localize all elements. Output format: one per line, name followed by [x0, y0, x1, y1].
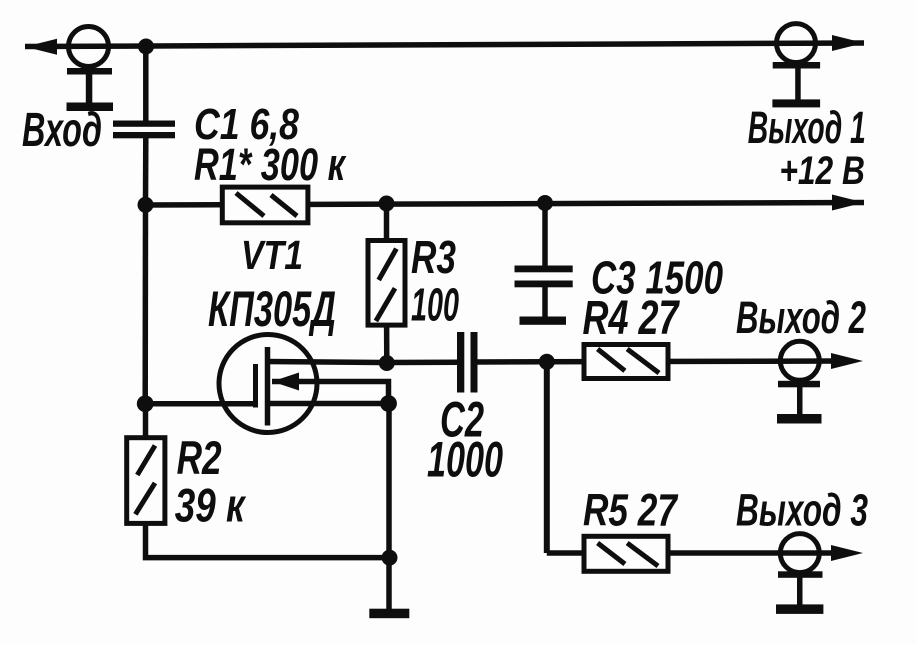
wire R3 top lead	[384, 204, 390, 242]
node drain	[379, 355, 395, 371]
svg-text:1000: 1000	[427, 432, 503, 488]
wire gate lead	[145, 401, 258, 407]
svg-text:VT1: VT1	[241, 232, 303, 278]
ground of output 3 connector	[776, 571, 823, 614]
resistor R5	[584, 536, 668, 571]
transistor VT1 substrate arrow	[272, 373, 299, 391]
ground of output 1 connector	[772, 62, 820, 107]
wire drain node to C2 left plate	[387, 359, 459, 365]
svg-text:Вход: Вход	[22, 104, 102, 157]
svg-text:КП305Д: КП305Д	[208, 281, 336, 337]
arrow right on bus 2	[832, 195, 864, 211]
connector input (socket)	[69, 27, 109, 67]
svg-text:100: 100	[411, 279, 459, 331]
svg-text:39 к: 39 к	[175, 479, 247, 532]
capacitor C3	[515, 266, 573, 288]
ground under transistor source	[369, 609, 409, 619]
ground of output 2 connector	[777, 381, 822, 424]
svg-text:R1* 300 к: R1* 300 к	[194, 139, 347, 190]
resistor R3	[368, 241, 405, 326]
wire substrate lead with bend	[272, 382, 389, 404]
node top bus / input branch	[138, 39, 154, 55]
wire source node to ground	[386, 404, 392, 611]
svg-text:R2: R2	[177, 431, 222, 484]
resistor R4	[584, 345, 668, 379]
svg-text:Выход 2: Выход 2	[736, 292, 866, 343]
wire vertical to R5	[544, 362, 550, 553]
capacitor C2	[457, 332, 478, 393]
arrow left on top bus	[25, 39, 57, 55]
svg-text:Выход 1: Выход 1	[748, 102, 866, 153]
wire C3 top lead	[542, 203, 548, 267]
node bus2 / C3	[537, 195, 553, 211]
wire R5 line	[547, 550, 840, 556]
node gate	[137, 395, 154, 412]
svg-text:R4 27: R4 27	[583, 292, 681, 345]
node bus2 / R3	[379, 196, 395, 212]
ground under C3	[520, 317, 567, 325]
wire left vertical upper (top bus to C1)	[143, 45, 149, 122]
wire C1 to bus2	[143, 137, 149, 205]
capacitor C1	[113, 121, 175, 139]
node bus2 left	[138, 197, 154, 213]
connector output 2	[780, 341, 819, 380]
wire C3 bottom lead	[542, 286, 548, 319]
resistor R2	[127, 438, 165, 524]
wire bus 2	[146, 203, 865, 206]
wire R2 top lead	[143, 404, 149, 438]
resistor R1	[222, 187, 308, 223]
arrow output 2	[831, 353, 863, 369]
wire left vertical lower (bus2 to gate node)	[142, 205, 148, 404]
wire R3 bottom lead	[384, 325, 390, 363]
svg-text:R5 27: R5 27	[583, 485, 679, 536]
node source	[380, 395, 397, 412]
wire R4 line	[547, 358, 840, 364]
transistor VT1 channel	[265, 347, 271, 426]
svg-text:R3: R3	[411, 231, 456, 283]
wire source lead	[267, 401, 389, 407]
wire C2 right plate to node	[476, 359, 547, 365]
connector output 1	[777, 24, 816, 63]
node C2 output	[539, 354, 555, 370]
wire top bus	[25, 43, 864, 47]
node bottom return / ground	[382, 550, 398, 566]
wire drain lead	[267, 362, 387, 363]
arrow output 3	[831, 545, 863, 561]
connector output 3	[780, 534, 819, 573]
transistor VT1 gate electrode	[253, 364, 258, 408]
svg-text:+12 В: +12 В	[779, 149, 865, 193]
wire R2 bottom lead and bottom return	[146, 523, 390, 558]
ground of input connector	[67, 68, 114, 111]
transistor VT1 body circle	[219, 335, 317, 433]
arrow right on top bus	[832, 35, 864, 51]
svg-text:Выход 3: Выход 3	[736, 485, 868, 536]
